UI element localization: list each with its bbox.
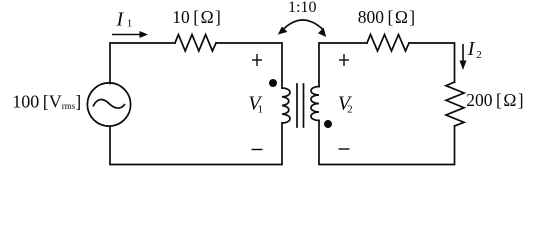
transformer T1 primary winding bbox=[282, 88, 290, 123]
wire secondary top bbox=[319, 43, 367, 87]
polarity dot primary bbox=[269, 79, 277, 87]
svg-text:1: 1 bbox=[258, 103, 264, 115]
coupling arrow arc bbox=[278, 20, 326, 37]
wire R2 to right corner bbox=[409, 43, 455, 82]
resistor R3 200ohm zigzag bbox=[446, 82, 464, 126]
minus sign secondary bbox=[339, 148, 350, 150]
wire secondary bottom bbox=[319, 121, 455, 165]
transformer core line left bbox=[296, 84, 298, 127]
resistor R2 800ohm zigzag bbox=[367, 35, 409, 52]
current arrow I1 bbox=[112, 31, 148, 38]
transformer T1 secondary winding bbox=[311, 87, 319, 121]
resistor R1 10ohm zigzag bbox=[175, 35, 216, 52]
polarity dot secondary bbox=[324, 120, 332, 128]
plus sign primary bbox=[252, 54, 262, 66]
svg-text:2: 2 bbox=[476, 49, 482, 61]
svg-text:I: I bbox=[467, 38, 476, 60]
transformer core line right bbox=[303, 84, 305, 127]
svg-text:800 [ Ω ]: 800 [ Ω ] bbox=[358, 7, 415, 27]
minus sign primary bbox=[252, 149, 263, 151]
voltage source VS circle bbox=[87, 83, 130, 126]
svg-text:1:10: 1:10 bbox=[288, 0, 316, 16]
current arrow I2 bbox=[460, 44, 467, 70]
svg-text:200 [ Ω ]: 200 [ Ω ] bbox=[466, 90, 523, 110]
wire primary bottom bbox=[110, 123, 282, 165]
svg-text:1: 1 bbox=[127, 18, 133, 30]
plus sign secondary bbox=[339, 54, 349, 66]
wire left-loop top bbox=[110, 43, 175, 84]
voltage source sine wave bbox=[93, 99, 125, 108]
svg-text:10 [ Ω ]: 10 [ Ω ] bbox=[172, 7, 221, 27]
svg-text:2: 2 bbox=[347, 103, 353, 115]
svg-text:100 [Vrms]: 100 [Vrms] bbox=[12, 92, 81, 112]
svg-text:I: I bbox=[116, 9, 125, 31]
wire R1 to transformer primary bbox=[216, 43, 282, 88]
